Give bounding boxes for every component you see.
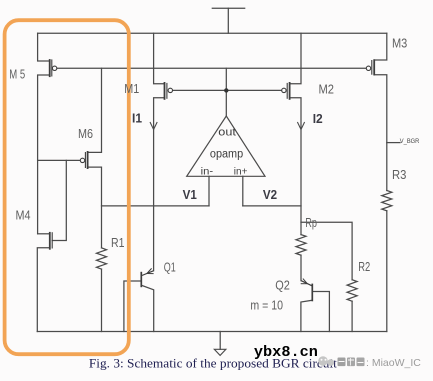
- resistor R3: [382, 191, 392, 211]
- resistor R1: [97, 248, 107, 269]
- M3 drain wire down right rail: [374, 75, 387, 191]
- R1 bottom wire: [101, 269, 103, 331]
- svg-text:Q2: Q2: [275, 277, 290, 292]
- opamp output wire: [225, 68, 227, 116]
- transistor M5: [50, 59, 57, 77]
- transistor Q2: [301, 279, 313, 302]
- current arrow I2: [297, 122, 304, 130]
- R2 bottom wire: [351, 301, 353, 331]
- M6 drain stub wire down to V1 node: [88, 167, 102, 248]
- Rp to Q2 emitter wire: [300, 255, 302, 281]
- Q1 base wire to ground: [124, 281, 141, 332]
- M4 source stub wire: [37, 248, 50, 332]
- op-amp U1: [187, 116, 265, 176]
- bottom rail wire: [37, 331, 387, 333]
- vdd bar: [212, 7, 244, 9]
- svg-text:I1: I1: [132, 111, 142, 126]
- M6 gate wire: [38, 159, 81, 161]
- Q1 collector wire: [141, 285, 153, 331]
- svg-text:out: out: [218, 126, 236, 138]
- M1 drain wire down to Q1: [154, 98, 165, 271]
- transistor M3: [366, 59, 374, 75]
- svg-text:Fig. 3: Schematic of the propo: Fig. 3: Schematic of the proposed BGR ci…: [89, 357, 338, 371]
- svg-text:M2: M2: [319, 82, 335, 97]
- opamp in+ pin wire: [242, 176, 244, 206]
- svg-text:M1: M1: [124, 81, 139, 96]
- top rail wire: [38, 32, 387, 34]
- V_BGR stub wire: [387, 142, 400, 144]
- svg-text:: MiaoW_IC: : MiaoW_IC: [366, 357, 421, 369]
- right rail drop wire to M3 source: [374, 33, 387, 60]
- M1 M2 gate wire: [173, 89, 282, 91]
- transistor M1: [165, 82, 173, 100]
- gate wire M5 to M3: [57, 67, 366, 69]
- svg-text:opamp: opamp: [210, 148, 243, 160]
- M5 drain stub wire: [38, 75, 50, 234]
- resistor R2: [347, 280, 357, 302]
- svg-text:M4: M4: [16, 208, 31, 223]
- svg-text:R3: R3: [392, 167, 406, 182]
- svg-text:V_BGR: V_BGR: [400, 138, 420, 145]
- svg-text:V2: V2: [263, 187, 277, 202]
- svg-text:M 5: M 5: [9, 66, 25, 81]
- svg-text:M6: M6: [78, 126, 93, 141]
- M4 gate riser wire: [52, 160, 66, 240]
- transistor Q1: [141, 268, 153, 287]
- R3 bottom wire: [386, 211, 388, 332]
- svg-text:in+: in+: [234, 165, 248, 177]
- svg-text:Q1: Q1: [164, 259, 176, 274]
- wechat icon: [318, 356, 334, 366]
- resistor Rp: [296, 235, 306, 256]
- svg-text:Rp: Rp: [305, 215, 317, 230]
- Rp junction wire to R2: [301, 222, 352, 280]
- svg-text:M3: M3: [392, 36, 407, 51]
- svg-text:V1: V1: [183, 187, 197, 202]
- junction dot node: [224, 88, 228, 92]
- transistor M2: [282, 82, 290, 100]
- V2 wire: [243, 205, 301, 207]
- M4 drain stub wire: [38, 233, 50, 235]
- M2 source riser wire: [290, 33, 301, 83]
- left rail drop wire to M5 source: [38, 33, 50, 61]
- M1 source riser wire: [154, 33, 165, 83]
- Q2 collector wire: [301, 300, 312, 331]
- vdd stem wire: [227, 8, 229, 33]
- opamp in- pin wire: [208, 176, 210, 206]
- ground symbol: [214, 349, 226, 355]
- svg-text:R1: R1: [111, 235, 125, 250]
- Q2 base wire to ground: [312, 292, 329, 332]
- svg-text:in-: in-: [201, 165, 214, 177]
- highlight annotation orange box: [5, 20, 129, 354]
- current arrow I1: [150, 122, 157, 130]
- wire junction drop to M6 source: [88, 68, 102, 152]
- svg-text:R2: R2: [358, 259, 370, 274]
- M2 drain wire down: [290, 98, 301, 235]
- transistor M6: [80, 151, 87, 169]
- transistor M4: [50, 232, 52, 250]
- wechat id text: [338, 357, 422, 369]
- svg-text:m = 10: m = 10: [250, 298, 283, 313]
- ground stem wire: [219, 332, 221, 350]
- V1 wire: [102, 205, 210, 207]
- svg-text:I2: I2: [313, 111, 323, 126]
